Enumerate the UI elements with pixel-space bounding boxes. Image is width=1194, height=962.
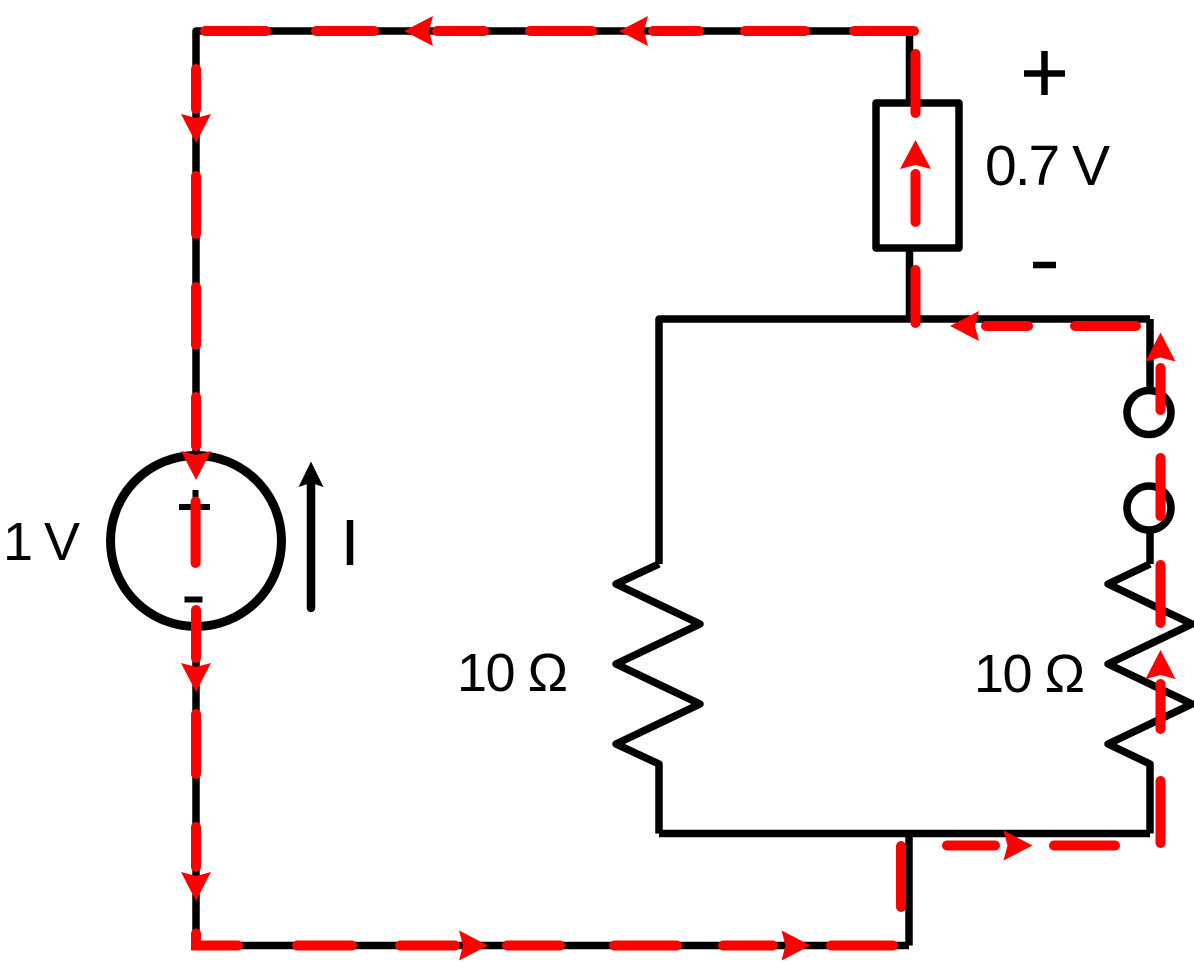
plus label of box (1024, 51, 1065, 95)
wire red dash right d3 (1156, 565, 1166, 623)
wire outer bottom-left (196, 631, 909, 946)
wire red dash top d1 (205, 26, 266, 36)
wire red dash left d7 (191, 714, 201, 774)
wire red dash left d5 in source (191, 502, 201, 564)
red arrowhead top a2 (619, 16, 648, 46)
resistor R1 10 ohm middle (616, 564, 700, 834)
red arrowhead inner bottom (1004, 831, 1033, 861)
minus sign inside source (185, 597, 203, 603)
red arrowhead left a1 (181, 114, 211, 143)
red arrowhead bottom a2 (782, 931, 811, 961)
minus label of box (1033, 262, 1056, 269)
wire red dash left d6 (191, 610, 201, 658)
wire red dash below box (911, 270, 921, 323)
red arrowhead in box (900, 140, 931, 169)
wire inner loop top (659, 319, 1150, 564)
current arrow I head (299, 462, 324, 488)
red arrowhead top a1 (404, 16, 433, 46)
wire red arrow in box shaft (911, 174, 921, 222)
wire red arrow inner top shaft (986, 321, 1028, 331)
wire red dash right d4 (1156, 458, 1166, 516)
voltage source V1 circle (111, 456, 282, 627)
wire red dash bottom d3 shaft (400, 941, 455, 951)
wire red dash bottom d6 shaft (723, 941, 773, 951)
red arrowhead bottom a1 (459, 931, 488, 961)
red arrowhead left a4 (181, 872, 211, 901)
wire red dash left d2 (191, 176, 201, 234)
wire red dash left d3 (191, 287, 201, 345)
wire red dash top d3 (530, 26, 592, 36)
wire red dash top d2 (316, 26, 374, 36)
svg-text:0.7 V: 0.7 V (985, 134, 1110, 198)
wire right branch top (1146, 319, 1154, 390)
red arrowhead right top (1146, 333, 1176, 362)
red arrowhead inner top (950, 311, 979, 341)
wire red dash top d5 (854, 26, 914, 36)
label I (347, 520, 354, 565)
wire junction vertical bottom (905, 834, 913, 946)
wire red dash bottom d4 (507, 941, 560, 951)
wire red dash bottom d5 (614, 941, 677, 951)
svg-text:10 Ω: 10 Ω (974, 644, 1084, 704)
resistor R2 10 ohm right (1108, 564, 1192, 834)
wire red arrow right mid shaft (1156, 684, 1166, 729)
wire box-bottom to inner top (906, 248, 914, 319)
terminal circle upper (1127, 391, 1171, 435)
wire red dash top d4 (745, 26, 805, 36)
wire red dash box branch d1 (911, 54, 921, 113)
wire red dash left d8 (191, 827, 201, 867)
current arrow I shaft (307, 484, 316, 608)
wire red dash left d1 (191, 69, 201, 109)
wire outer top-left loop (196, 31, 910, 452)
wire red dash right corner (1156, 781, 1166, 843)
wire red dash junction vertical (896, 846, 906, 907)
wire red dash bottom d7 (831, 941, 893, 951)
wire red dash corner bottom-left (196, 934, 238, 946)
red arrowhead right mid (1146, 650, 1176, 679)
wire red arrow top a2 shaft (653, 26, 699, 36)
wire red dash inner bottom d2 (1054, 841, 1115, 851)
wire red arrow right top shaft (1156, 368, 1166, 410)
wire red dash left d4 (191, 397, 201, 446)
wire inner loop bottom (659, 830, 1150, 838)
svg-text:10 Ω: 10 Ω (457, 643, 567, 703)
red arrowhead left a3 (181, 663, 211, 692)
wire red dash inner bottom d1 shaft (947, 841, 995, 851)
wire between circle and resistor (1146, 532, 1154, 564)
diode box D1 (876, 103, 959, 248)
svg-text:1 V: 1 V (3, 512, 80, 572)
wire red dash inner top d1 (1075, 321, 1136, 331)
wire red arrow top a1 shaft (437, 26, 484, 36)
wire red dash bottom d2 (297, 941, 352, 951)
plus sign inside source (179, 490, 210, 523)
terminal circle lower (1127, 486, 1171, 530)
red arrowhead left a2 (181, 451, 211, 480)
